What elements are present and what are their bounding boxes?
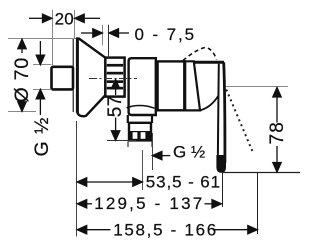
dimension 57 vertical — [111, 79, 119, 140]
svg-text:Ø 70: Ø 70 — [11, 57, 33, 102]
lever handle top edge — [194, 61, 224, 64]
escutcheon inner face line — [72, 39, 74, 112]
svg-text:158,5 - 166: 158,5 - 166 — [113, 221, 218, 240]
svg-text:57: 57 — [105, 95, 126, 117]
escutcheon bottom slope — [77, 95, 105, 116]
extension line O70 top — [8, 38, 76, 40]
dashed raised-lever arc — [183, 47, 217, 60]
union nut — [105, 58, 124, 97]
svg-text:78: 78 — [267, 121, 288, 145]
nut knurl bands — [107, 64, 123, 90]
svg-text:G ½: G ½ — [173, 143, 205, 162]
dimension O70 vertical — [18, 39, 26, 111]
outlet stubs below nut — [127, 142, 129, 147]
escutcheon face (thick) — [76, 38, 79, 112]
tick 57 bottom — [107, 140, 136, 142]
lever tip blob — [216, 155, 226, 173]
svg-text:20: 20 — [55, 9, 74, 28]
outlet tube — [128, 115, 152, 123]
tick G1/2 bottom — [33, 89, 52, 91]
nipple G1/2 — [52, 67, 74, 90]
cartridge housing — [158, 61, 185, 110]
lever right edge — [224, 62, 225, 163]
dimension 78 vertical — [273, 88, 281, 173]
ext line outlet right (G1/2) — [152, 133, 154, 170]
ext line lever tip level — [222, 172, 300, 174]
outlet hose nut — [129, 123, 151, 141]
outlet nut slots — [133, 132, 138, 139]
cap seam arc — [127, 105, 155, 108]
outlet nut slotted band — [129, 131, 151, 140]
lever left edge — [218, 64, 219, 163]
svg-text:0 - 7,5: 0 - 7,5 — [135, 25, 197, 44]
dimension 0-7,5 — [81, 29, 129, 37]
ext line x257 (166 right) — [257, 173, 259, 235]
ext line escutcheon face (left of bottom dims) — [76, 121, 78, 237]
tick 0-7.5 right — [108, 25, 110, 58]
bottom edge under collar — [184, 109, 200, 111]
tick G1/2 top — [33, 64, 52, 66]
svg-text:G ½: G ½ — [31, 117, 53, 157]
dimension row3 158,5-166 — [77, 226, 257, 234]
body cap — [129, 58, 156, 115]
dimension row1 53,5-61 — [77, 178, 142, 186]
arrow G1/2 bottom (points at outlet) — [152, 151, 170, 159]
dimension 20 — [29, 14, 100, 22]
escutcheon top slope — [76, 39, 106, 58]
centerline — [89, 78, 137, 80]
ext line 20-right — [74, 10, 76, 39]
dimension row2 129,5-137 — [77, 200, 221, 208]
under-handle dome curve — [200, 96, 219, 111]
dimension G1/2 left vertical — [36, 41, 44, 115]
ext line outlet center — [142, 150, 144, 190]
handle collar — [185, 61, 200, 110]
svg-text:129,5 - 137: 129,5 - 137 — [94, 194, 204, 213]
ext line 20-left — [52, 10, 54, 66]
dotted swung-lever line — [226, 90, 252, 152]
ext line 78 top — [226, 86, 288, 88]
svg-text:53,5 - 61: 53,5 - 61 — [146, 172, 221, 191]
ext line x222 (137 right / lever face) — [222, 173, 224, 208]
extension line O70 bottom — [8, 111, 36, 113]
tick 0-7.5 left — [102, 25, 104, 46]
